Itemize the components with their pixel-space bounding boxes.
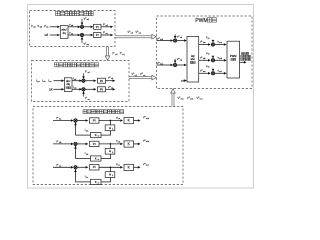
block Ki La: [91, 133, 102, 138]
block PI voltage d: [94, 24, 102, 29]
svg-text:PI: PI: [93, 142, 96, 146]
block HL Lb: [105, 148, 115, 154]
svg-text:PWM: PWM: [230, 54, 237, 58]
node tap La: [110, 120, 112, 122]
svg-text:oq: oq: [139, 32, 142, 34]
svg-text:cq: cq: [180, 60, 182, 62]
svg-text:ma: ma: [219, 42, 223, 44]
block PI cap q: [98, 87, 106, 92]
svg-text:ic: ic: [98, 183, 99, 185]
junction sum carrier b: [211, 59, 214, 62]
svg-text:PI: PI: [96, 25, 99, 29]
wire feedback La: [76, 134, 91, 136]
wire tap down Lb: [109, 144, 111, 148]
wire HL La down: [109, 131, 111, 135]
title: output inductor current feedback control: [83, 110, 87, 114]
title: output voltage feedback control: [56, 11, 60, 15]
svg-text:Lc: Lc: [86, 177, 88, 179]
junction sum voq: [78, 34, 81, 37]
junction sum vod: [78, 26, 81, 29]
wire PI Lb out: [99, 143, 122, 145]
box: output inductor current feedback control: [33, 107, 183, 185]
svg-text:cd: cd: [180, 37, 182, 39]
carrier stub c: [212, 69, 214, 71]
svg-text:tri: tri: [208, 53, 210, 56]
svg-text:mb: mb: [203, 58, 206, 60]
wire sum to PI La: [77, 120, 87, 122]
block HL Lc: [105, 172, 115, 178]
carrier stub b: [212, 56, 214, 58]
svg-text:mc: mc: [219, 71, 222, 73]
block K Lc: [124, 164, 134, 170]
svg-text:mc: mc: [200, 99, 204, 101]
svg-text:cd: cd: [74, 79, 76, 81]
ref vcd* stub (pwm): [174, 34, 176, 38]
wire PI Lc out: [99, 166, 122, 168]
wire tap down Lc: [109, 167, 111, 171]
wire sum to PI q: [84, 34, 93, 36]
wire sum to PI cq: [85, 88, 95, 90]
label drive signals: [241, 52, 243, 54]
svg-text:ma: ma: [146, 118, 150, 120]
svg-text:cq: cq: [88, 99, 90, 101]
junction sum pwm q: [174, 63, 177, 66]
wire sum to PI cd: [85, 80, 95, 82]
wire icq: [72, 88, 82, 90]
wire dq out c: [199, 72, 210, 74]
wire icabc in: [54, 80, 64, 82]
wire icd: [72, 80, 82, 82]
svg-text:PWM: PWM: [195, 18, 208, 24]
svg-text:oc: oc: [46, 27, 49, 29]
box: PWM modulation: [157, 16, 253, 89]
wire vod: [68, 26, 80, 28]
wire PI q out: [101, 34, 112, 36]
block PI inductor Lc: [90, 165, 100, 170]
junction sum iLb: [74, 142, 77, 145]
wire feedback Lb: [76, 158, 91, 160]
title: output capacitor current feedback control: [55, 63, 59, 67]
svg-text:cq: cq: [111, 88, 113, 90]
figure frame: [28, 5, 254, 189]
svg-text:mb: mb: [190, 99, 194, 101]
wire PI La out: [99, 120, 122, 122]
ref icd* stub: [83, 73, 85, 78]
wire K Lb out: [134, 143, 140, 145]
ref voq* stub: [81, 38, 83, 44]
wire K La out: [134, 120, 140, 122]
svg-text:cd: cd: [111, 78, 113, 80]
svg-text:mc: mc: [146, 165, 149, 167]
svg-text:K: K: [95, 133, 97, 137]
svg-text:cd: cd: [115, 54, 118, 56]
wire Voabc in: [50, 26, 59, 28]
bus vma*/vmb*/vmc* up: [171, 92, 173, 106]
wire PI cd out: [106, 80, 114, 82]
block abc/dq (voltage): [60, 26, 68, 39]
svg-text:ωt: ωt: [49, 88, 53, 92]
svg-text:tri: tri: [208, 37, 210, 40]
svg-text:ob: ob: [40, 27, 43, 29]
block Ki Lb: [91, 156, 102, 161]
block PI cap d: [98, 78, 106, 83]
svg-text:Lc: Lc: [59, 165, 61, 167]
bus vcd*/vcq* to PWM: [129, 76, 153, 78]
box: output capacitor current feedback control: [32, 61, 130, 102]
wire dq out a: [199, 44, 210, 46]
svg-text:PI: PI: [93, 118, 96, 122]
wire tap down La: [109, 121, 111, 125]
wire drive out: [240, 61, 246, 63]
svg-text:mb: mb: [146, 141, 150, 143]
wire pwm in d: [157, 40, 173, 42]
block dq/abc inverse transform: [187, 37, 199, 83]
junction sum pwm d: [174, 39, 177, 42]
svg-text:cc: cc: [49, 81, 51, 83]
block K La: [124, 118, 134, 124]
wire PI cq out: [106, 88, 114, 90]
block PWM comparator: [227, 41, 240, 78]
carrier stub a: [212, 40, 214, 42]
wire iLb* in: [53, 143, 73, 145]
wire PI d out: [101, 26, 112, 28]
svg-text:oa: oa: [33, 27, 36, 29]
wire sum q to dq: [177, 64, 186, 66]
bus vod*/voq* to PWM: [115, 35, 153, 37]
svg-text:od: od: [87, 19, 90, 21]
block Ki Lc: [91, 179, 102, 184]
svg-text:ma: ma: [181, 99, 185, 101]
wire wt in: [50, 34, 59, 36]
block PI inductor Lb: [90, 141, 100, 146]
node tap Lc: [110, 166, 112, 168]
svg-text:K: K: [95, 180, 97, 184]
svg-text:cb: cb: [43, 81, 46, 83]
svg-text:K: K: [95, 157, 97, 161]
wire sum b to pwm: [215, 59, 226, 61]
wire voq: [68, 34, 80, 36]
wire HL Lc down: [109, 178, 111, 182]
block PI inductor La: [90, 118, 100, 123]
junction sum icd: [79, 79, 82, 82]
svg-text:/dq: /dq: [66, 83, 70, 86]
wire HL Lb down: [109, 154, 111, 158]
svg-text:Lc: Lc: [118, 165, 120, 167]
svg-text:PI: PI: [96, 33, 99, 37]
ref vcq* stub (pwm): [174, 59, 176, 63]
svg-text:mc: mc: [203, 71, 206, 73]
svg-text:dq: dq: [63, 31, 67, 35]
svg-text:cq: cq: [74, 88, 76, 90]
svg-text:abc/: abc/: [61, 28, 66, 32]
wire sum a to pwm: [215, 44, 226, 46]
svg-text:ωt: ωt: [45, 33, 49, 37]
svg-text:H: H: [109, 173, 111, 177]
svg-text:cq: cq: [122, 54, 125, 56]
svg-text:abc: abc: [191, 57, 196, 61]
block abc/dq (capacitor): [64, 78, 72, 92]
wire sum d to dq: [177, 40, 186, 42]
svg-text:ma: ma: [203, 42, 207, 44]
block PI voltage q: [94, 33, 102, 38]
wire sum to PI Lc: [77, 166, 87, 168]
wire feedback Lc: [76, 181, 91, 183]
wire sum c to pwm: [215, 72, 226, 74]
wire iLc* in: [53, 166, 73, 168]
wire wt in (cap): [54, 88, 64, 90]
wire dq out b: [199, 59, 210, 61]
block HL La: [105, 125, 115, 131]
svg-text:ωt: ωt: [181, 79, 184, 83]
svg-text:Lb: Lb: [118, 141, 120, 143]
junction sum iLc: [74, 166, 77, 169]
wire K Lc out: [134, 166, 140, 168]
wire wt (pwm): [185, 80, 186, 82]
junction sum carrier c: [211, 72, 214, 75]
svg-text:H: H: [109, 126, 111, 130]
svg-text:PI: PI: [93, 165, 96, 169]
node tap Lb: [110, 143, 112, 145]
wire pwm in q: [157, 64, 173, 66]
svg-text:mb: mb: [219, 58, 222, 60]
junction sum iLa: [74, 119, 77, 122]
svg-text:od: od: [131, 32, 134, 34]
svg-text:PI: PI: [100, 79, 103, 83]
ref vod* stub: [81, 19, 83, 25]
junction sum icq: [79, 88, 82, 91]
svg-text:PI: PI: [100, 87, 103, 91]
wire iLa* in: [53, 120, 73, 122]
svg-text:Lb: Lb: [86, 154, 88, 156]
svg-text:La: La: [86, 130, 89, 132]
svg-text:ic: ic: [98, 159, 99, 161]
box: output voltage feedback control: [30, 11, 116, 47]
wire sum to PI Lb: [77, 143, 87, 145]
svg-text:oq: oq: [87, 44, 90, 46]
svg-text:ca: ca: [37, 81, 40, 83]
svg-text:H: H: [109, 149, 111, 153]
ref icq* stub: [83, 92, 85, 97]
wire sum to PI d: [84, 26, 93, 28]
svg-text:ic: ic: [98, 136, 99, 138]
junction sum carrier a: [211, 43, 214, 46]
svg-text:cd: cd: [88, 72, 90, 74]
bus icd*/icq* down: [106, 47, 108, 57]
block K Lb: [124, 141, 134, 147]
svg-text:tri: tri: [208, 66, 210, 69]
